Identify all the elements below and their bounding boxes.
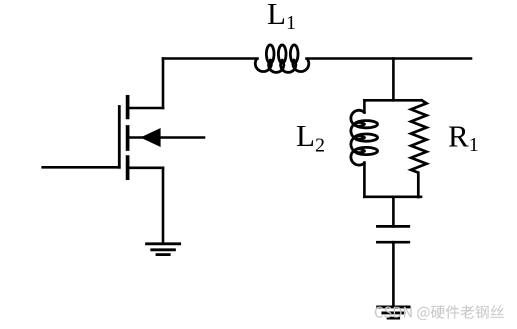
wire capacitor to ground <box>392 242 395 306</box>
watermark CSDN <box>375 305 504 320</box>
inductor L2 <box>351 110 378 165</box>
svg-text:R1: R1 <box>448 119 479 157</box>
wire source to ground <box>162 168 165 243</box>
gate lead wire <box>43 166 120 169</box>
ground GND1 (below Q1) <box>147 244 180 255</box>
wire drain vertical <box>162 59 165 109</box>
wire top rail right segment (L1 to output) <box>307 57 472 60</box>
inductor L1 <box>255 45 308 73</box>
resistor R1 <box>411 100 427 197</box>
transistor Q1 (N-MOSFET) <box>43 97 204 178</box>
body lead with arrow line <box>128 136 204 139</box>
capacitor C1 bottom plate <box>377 241 408 244</box>
wire top rail left segment (drain node to L1) <box>163 57 258 60</box>
gate bar <box>118 107 121 168</box>
channel bar source segment <box>126 157 130 178</box>
capacitor C1 top plate <box>377 225 408 228</box>
channel bar drain segment <box>126 97 130 118</box>
wire tank top rail <box>364 99 421 102</box>
svg-text:L1: L1 <box>267 0 296 34</box>
drain lead <box>128 107 163 110</box>
wire L2 top stub <box>363 100 366 112</box>
body arrow head <box>140 128 160 147</box>
source lead <box>128 167 163 170</box>
wire tank bottom to capacitor <box>392 197 395 227</box>
channel bar body segment <box>126 127 130 149</box>
ground GND2 (bottom) <box>378 307 409 318</box>
wire tank bottom rail <box>364 196 421 199</box>
wire L2 bottom stub <box>363 163 366 197</box>
svg-text:L2: L2 <box>296 118 325 156</box>
wire junction feed (top rail to tank) <box>392 59 395 101</box>
